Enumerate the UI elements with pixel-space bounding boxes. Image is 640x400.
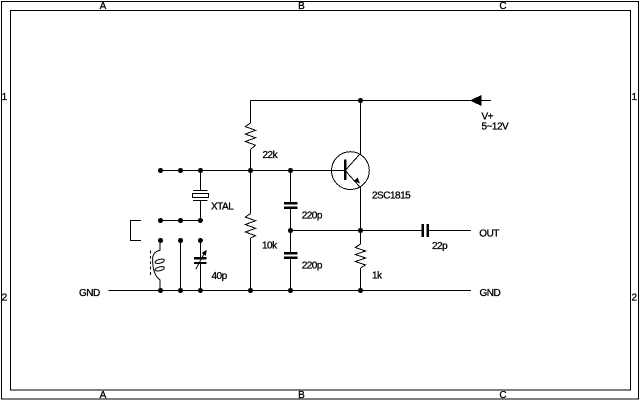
capacitor 22p [423,224,471,237]
junction ground x160 [158,288,163,293]
svg-text:10k: 10k [262,241,278,252]
resistor 10k [245,171,255,291]
svg-text:40p: 40p [212,271,228,282]
junction base bus x250 [248,168,253,173]
terminal dot x180 [178,238,183,243]
variable capacitor 40p [194,241,207,291]
junction emitter-out [358,228,363,233]
resistor 1k [355,231,365,291]
svg-text:1: 1 [2,92,8,103]
svg-text:B: B [298,1,305,12]
wire power rail [251,100,471,102]
junction ground x290 [288,288,293,293]
inductor L1 [150,241,165,291]
wire center stub [180,241,182,291]
junction base bus x290 [288,168,293,173]
resistor 22k [245,101,255,171]
svg-text:2SC1815: 2SC1815 [372,191,411,202]
svg-text:OUT: OUT [479,228,499,239]
wire output bus [291,230,423,232]
svg-text:1: 1 [632,92,638,103]
junction ground x200 [198,288,203,293]
svg-text:2: 2 [632,293,638,304]
junction ground x250 [248,288,253,293]
junction base bus x160 [158,168,163,173]
junction upper bus x200 [198,218,203,223]
svg-text:A: A [100,1,107,12]
junction upper bus x180 [178,218,183,223]
power symbol V+ arrow [470,95,491,106]
svg-text:GND: GND [480,288,501,299]
junction out-cap220p [288,228,293,233]
svg-text:C: C [499,390,506,400]
svg-text:220p: 220p [302,261,323,272]
svg-text:GND: GND [79,288,100,299]
svg-text:C: C [499,1,506,12]
junction collector-rail [358,98,363,103]
connector bracket [131,221,142,241]
svg-text:5~12V: 5~12V [482,121,510,132]
svg-text:220p: 220p [302,211,323,222]
terminal dot x160 [158,238,163,243]
junction ground x180 [178,288,183,293]
capacitor 220p upper [284,171,298,253]
svg-text:B: B [298,390,305,400]
svg-text:A: A [100,390,107,400]
wire collector [360,101,362,153]
junction upper bus x160 [158,218,163,223]
wire connector bus upper [161,220,201,222]
svg-text:1k: 1k [372,271,383,282]
junction base bus x180 [178,168,183,173]
terminal dot x200 [198,238,203,243]
svg-text:2: 2 [2,293,8,304]
junction base bus x200 [198,168,203,173]
transistor Q1 2SC1815 [332,152,370,190]
wire ground bus [109,290,471,292]
svg-text:XTAL: XTAL [211,201,234,212]
crystal XTAL [193,171,209,221]
wire emitter [360,188,362,231]
svg-text:22k: 22k [263,150,279,161]
capacitor 220p lower [284,253,298,290]
svg-text:22p: 22p [432,241,448,252]
wire base bus [161,170,345,172]
junction ground x360 [358,288,363,293]
